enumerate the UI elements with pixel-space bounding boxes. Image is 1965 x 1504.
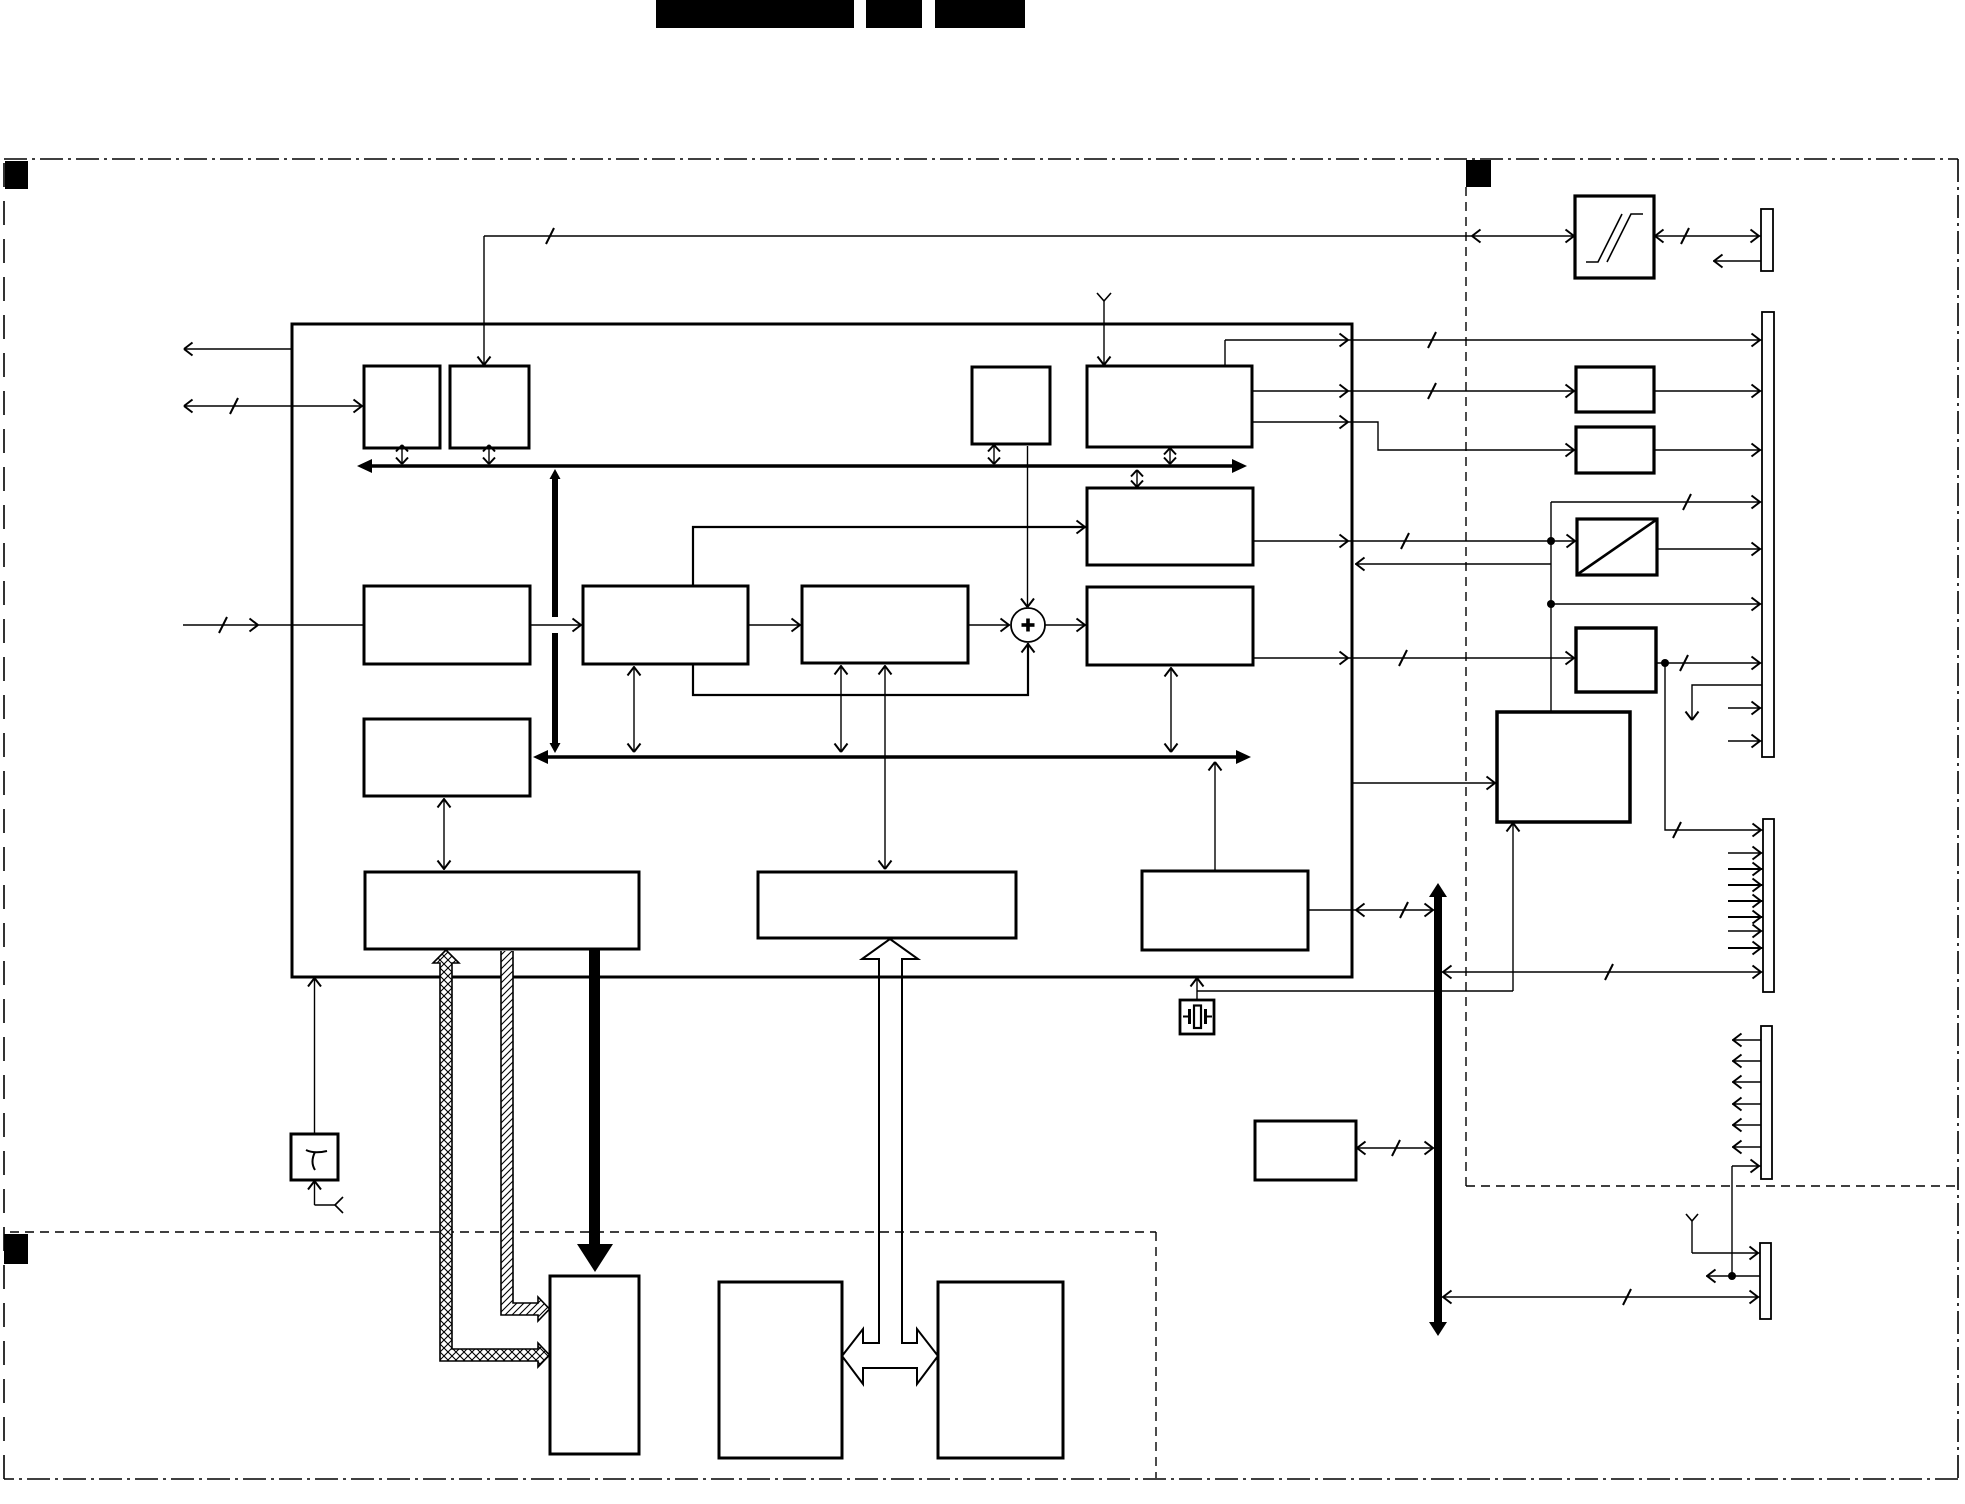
crosshatch bus K2 to P <box>433 950 550 1367</box>
outer boundary frame top <box>4 158 1958 160</box>
IR input antenna <box>308 1180 343 1213</box>
stub c3 6 <box>1728 925 1763 938</box>
antenna symbol top <box>1097 293 1111 366</box>
wire hysteresis to connector1 <box>1654 228 1761 244</box>
wire W1 to G1 <box>530 619 583 632</box>
wire drop to block B <box>478 236 491 366</box>
stub c3 1 <box>1728 847 1763 860</box>
inner dashed boundary horizontal right <box>1466 1185 1958 1187</box>
stub c3 2 <box>1728 863 1763 876</box>
bus link B <box>483 445 495 464</box>
outer boundary frame right <box>1957 159 1959 1479</box>
wire DAC to connector2 <box>1657 543 1762 556</box>
crystal vertical <box>1191 977 1204 1000</box>
wire input left 3 to W1 <box>183 617 364 633</box>
stub c3 5 <box>1728 911 1763 924</box>
inner dashed boundary vertical right <box>1465 187 1467 1186</box>
wire connector2 down-out <box>1686 685 1763 720</box>
bus2 link F <box>1165 667 1178 752</box>
block C <box>972 367 1050 444</box>
bus link D <box>1164 448 1176 464</box>
section marker square 2 <box>1466 160 1491 187</box>
wire N to bus3 <box>1356 1140 1434 1156</box>
wire connector4 feed <box>1732 1160 1761 1277</box>
block F <box>1087 587 1253 665</box>
block Q <box>719 1282 842 1458</box>
title redaction bar 2 <box>866 0 922 28</box>
DAC block <box>1577 519 1657 575</box>
wire K to connector2 <box>1656 655 1762 671</box>
data bus 1 horizontal <box>357 459 1247 473</box>
wire connector1 out <box>1713 255 1761 268</box>
wire IC to IR box <box>308 977 321 1134</box>
wire adder to F <box>1045 619 1087 632</box>
block G <box>1576 367 1654 412</box>
block A <box>364 366 440 448</box>
connector bar 4 <box>1761 1026 1772 1179</box>
connector bar 3 <box>1763 819 1774 992</box>
hollow arrow bus L to QR <box>842 939 938 1384</box>
block L <box>758 872 1016 938</box>
IR receiver box <box>291 1134 338 1180</box>
connector bar 1 <box>1761 209 1773 271</box>
wire feedback to adder and E <box>693 521 1087 696</box>
block E <box>1087 488 1253 565</box>
outer boundary frame left <box>3 159 5 1479</box>
wire G2 to adder <box>968 619 1010 632</box>
vertical bus V1 <box>550 469 561 753</box>
vertical bus 3 <box>1429 883 1447 1336</box>
block R <box>938 1282 1063 1458</box>
block W2 <box>364 719 530 796</box>
block K <box>1576 628 1656 692</box>
wire connector5 branch <box>1706 1270 1760 1283</box>
wire J bottom to crystal node <box>1197 822 1520 991</box>
wire bus3 to connector3 <box>1442 964 1763 980</box>
diagonal hatch bus K2 to P <box>501 951 550 1321</box>
bus link A <box>396 445 408 464</box>
antenna symbol bottom <box>1686 1214 1760 1260</box>
connector bar 2 <box>1762 312 1774 757</box>
wire output left 1 <box>184 343 293 356</box>
wire node to connector2 at 604 <box>1551 598 1762 611</box>
wire F to block K <box>1253 650 1576 666</box>
stub c3 3 <box>1728 879 1763 892</box>
stub c4 out 3 <box>1732 1076 1761 1089</box>
wire D to block H line3 <box>1252 416 1576 457</box>
wire E to DAC <box>1253 533 1577 549</box>
wire bus3 to connector5 <box>1442 1289 1760 1305</box>
bus link E <box>1131 470 1143 487</box>
wire G to connector2 <box>1654 385 1762 398</box>
block P <box>550 1276 639 1454</box>
section marker square 1 <box>5 161 28 189</box>
block K2 interface <box>365 872 639 949</box>
block M <box>1142 871 1308 950</box>
vertical node line 1551 <box>1547 494 1762 712</box>
bus2 link G2 <box>835 665 848 752</box>
bus2 link G1 <box>628 666 641 752</box>
title redaction bar 1 <box>656 0 854 28</box>
stub c3 4 <box>1728 895 1763 908</box>
block J <box>1497 712 1630 822</box>
stub c3 7 <box>1728 942 1763 955</box>
inner dashed boundary vertical bottom-left <box>1155 1232 1157 1478</box>
block B <box>450 366 529 448</box>
block W1 <box>364 586 530 664</box>
block H <box>1576 427 1654 473</box>
solid black bus K2 to P <box>577 949 613 1272</box>
title redaction bar 3 <box>935 0 1025 28</box>
wire W2 to K2 <box>438 798 451 870</box>
block G2 <box>802 586 968 663</box>
block D <box>1087 366 1252 447</box>
crystal <box>1180 1000 1214 1034</box>
wire G2 to L <box>879 665 892 869</box>
wire C to adder <box>1021 446 1034 607</box>
stub into connector2 a <box>1728 702 1762 715</box>
wire bidirectional left 2 <box>184 398 364 414</box>
wire IC to J <box>1352 777 1497 790</box>
main IC block <box>292 324 1352 977</box>
inner dashed boundary horizontal bottom-left <box>10 1231 1156 1233</box>
bus2 link M <box>1209 762 1222 871</box>
stub c4 out 6 <box>1732 1141 1761 1154</box>
outer boundary frame bottom <box>4 1478 1958 1480</box>
wire D corner to connector2 line1 <box>1225 332 1762 366</box>
wire G1 to G2 <box>748 619 802 632</box>
stub c4 out 5 <box>1732 1119 1761 1132</box>
wire top long to hysteresis <box>484 228 1575 244</box>
wire M to bus3 <box>1308 902 1434 918</box>
stub c4 out 2 <box>1732 1055 1761 1068</box>
connector bar 5 <box>1760 1243 1771 1319</box>
bus link C <box>988 445 1000 464</box>
block G1 <box>583 586 748 664</box>
stub into connector2 b <box>1728 735 1762 748</box>
data bus 2 horizontal <box>533 750 1251 764</box>
block N <box>1255 1121 1356 1180</box>
hysteresis block <box>1575 196 1654 278</box>
wire H to connector2 <box>1654 444 1762 457</box>
stub c4 out 1 <box>1732 1034 1761 1047</box>
adder <box>1011 608 1045 642</box>
wire into IC at 564 <box>1355 558 1551 571</box>
section marker square 3 <box>4 1234 28 1264</box>
wire K node down to connector3 <box>1665 663 1763 838</box>
stub c4 out 4 <box>1732 1098 1761 1111</box>
wire D to block G line2 <box>1252 383 1576 399</box>
